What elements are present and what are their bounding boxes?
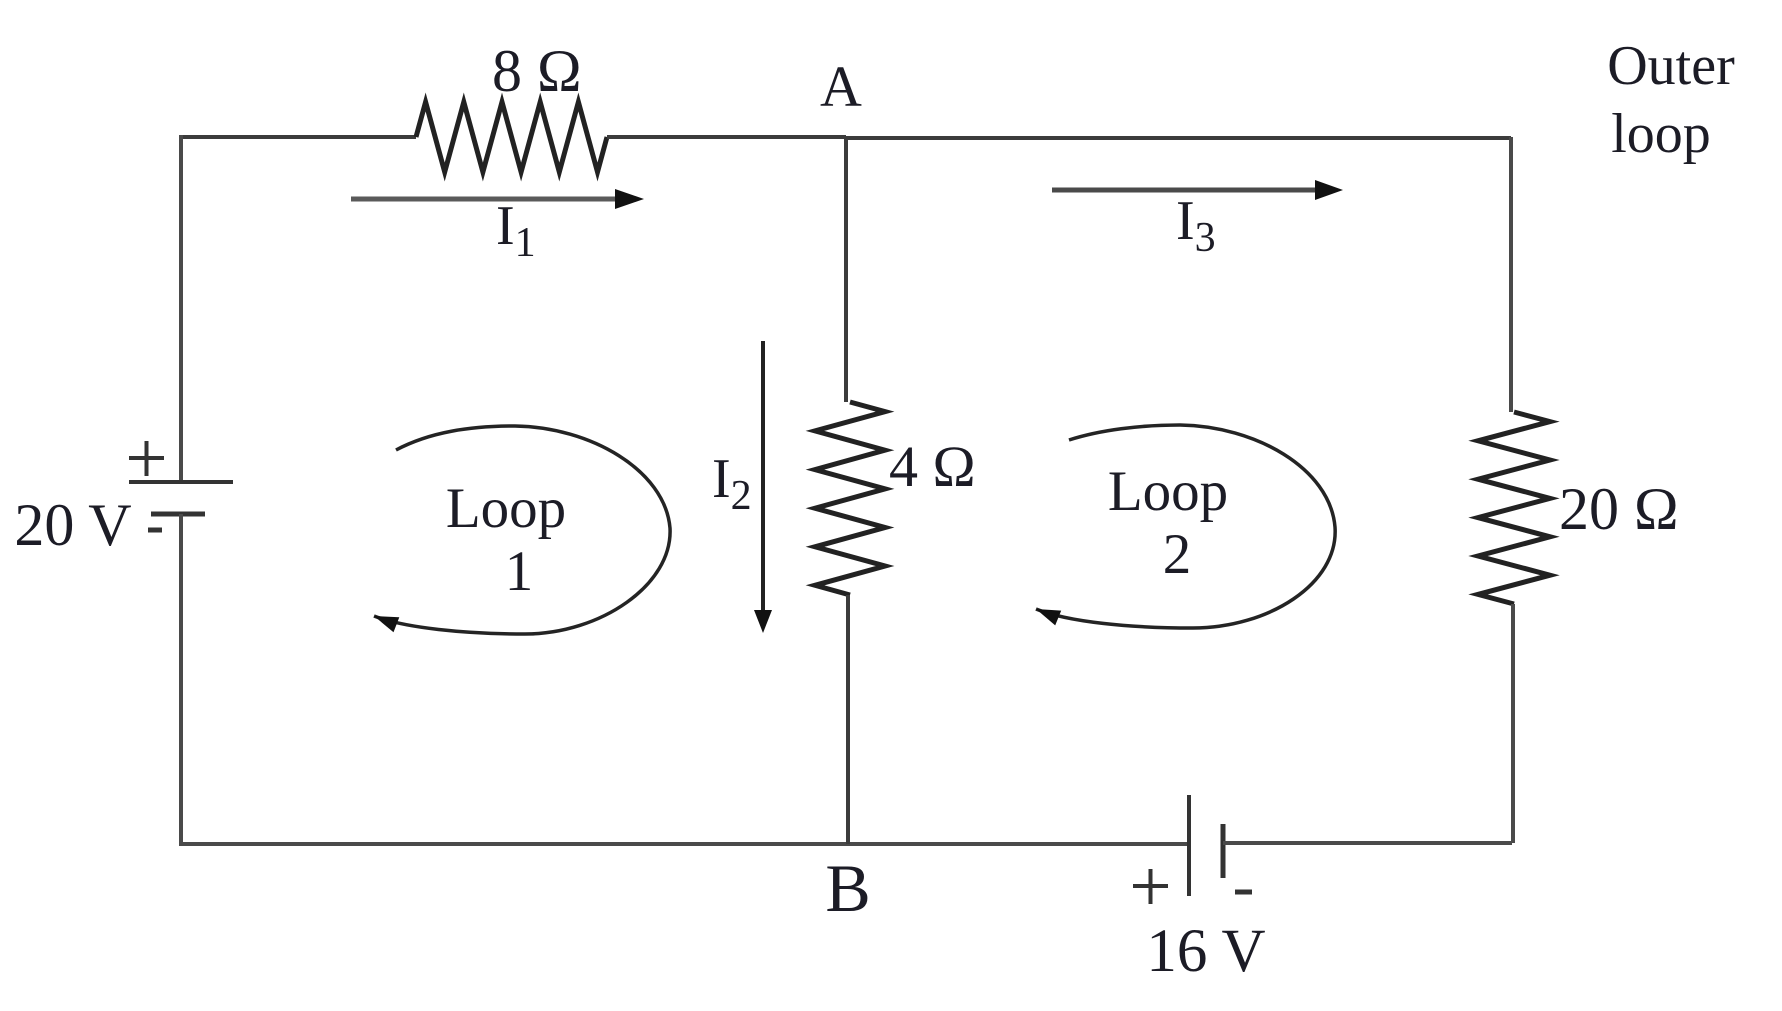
svg-text:B: B (825, 850, 870, 926)
battery V1 minus sign (148, 528, 162, 533)
resistor 4 ohm (middle, vertical) (815, 402, 885, 595)
wire: left vertical lower (battery to bottom-left corner) (179, 514, 183, 844)
wire: middle vertical lower (4 ohm to node B) (846, 595, 850, 844)
resistor 20 ohm (right, vertical) (1478, 412, 1550, 604)
resistor 8 ohm (top, horizontal) (416, 102, 607, 172)
battery V2 plus sign (1133, 869, 1168, 904)
svg-text:I1: I1 (496, 195, 536, 266)
battery V1 20V positive plate (long) (129, 480, 233, 484)
wire: top-left horizontal segment (180, 135, 416, 139)
loop 2 arc (clockwise oval, right mesh) (1036, 425, 1335, 628)
svg-text:20 V: 20 V (14, 492, 131, 558)
current arrow I3 (top-right, pointing right) (1052, 188, 1318, 193)
svg-text:2: 2 (1163, 523, 1192, 586)
svg-text:16 V: 16 V (1146, 918, 1265, 985)
battery V2 minus sign (1235, 890, 1252, 895)
svg-text:loop: loop (1611, 103, 1711, 165)
svg-text:8 Ω: 8 Ω (492, 38, 582, 104)
wire: right vertical lower (20 ohm to bottom-right corner) (1511, 604, 1515, 843)
battery V1 plus sign (129, 441, 164, 476)
loop 1 arc (clockwise oval, left mesh) (374, 426, 670, 634)
battery V1 20V negative plate (short) (151, 512, 205, 517)
wire: bottom-left horizontal (corner to 16V battery) (179, 842, 1189, 846)
wire: bottom-right horizontal (battery to bottom-right corner) (1223, 841, 1512, 845)
current arrow I1 (top-left, pointing right) (351, 197, 618, 202)
svg-text:Loop: Loop (446, 477, 566, 540)
battery V2 16V negative plate (short, vertical) (1221, 824, 1226, 878)
current arrow I2 (middle, pointing down) (761, 341, 765, 615)
svg-text:Loop: Loop (1108, 460, 1228, 523)
svg-text:I3: I3 (1176, 190, 1216, 261)
svg-text:Outer: Outer (1607, 35, 1735, 97)
wire: left vertical upper (corner to battery) (179, 135, 183, 482)
battery V2 16V positive plate (long, vertical) (1187, 795, 1191, 896)
svg-text:A: A (820, 54, 862, 119)
svg-text:20 Ω: 20 Ω (1559, 476, 1679, 542)
svg-text:1: 1 (505, 540, 534, 603)
wire: top segment from resistor to node A (607, 135, 846, 139)
wire: right vertical upper (corner to 20 ohm) (1509, 137, 1513, 412)
wire: top segment from node A to top-right corner (846, 136, 1511, 140)
svg-text:I2: I2 (712, 448, 752, 519)
wire: middle vertical upper (node A to 4 ohm) (844, 137, 848, 402)
svg-text:4 Ω: 4 Ω (889, 434, 976, 499)
